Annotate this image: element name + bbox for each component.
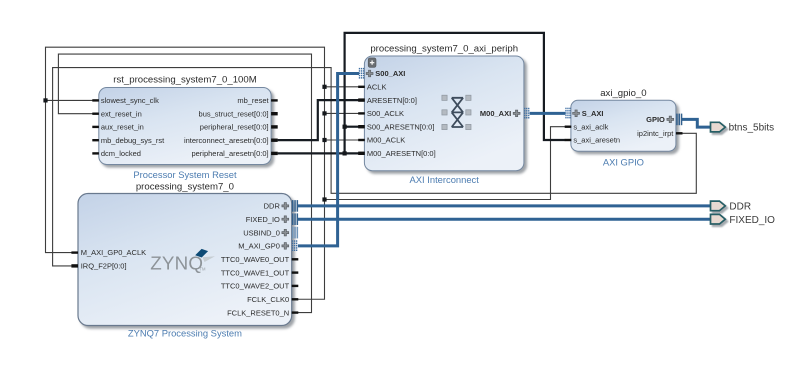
svg-text:axi_gpio_0: axi_gpio_0 bbox=[600, 88, 646, 99]
clock junction at s_axi_aclk branch bbox=[322, 197, 326, 201]
svg-text:IRQ_F2P[0:0]: IRQ_F2P[0:0] bbox=[81, 262, 127, 271]
wire clock branch to slowest_sync_clk bbox=[46, 99, 93, 101]
svg-text:AXI GPIO: AXI GPIO bbox=[603, 157, 644, 168]
svg-text:M_AXI_GP0_ACLK: M_AXI_GP0_ACLK bbox=[81, 248, 146, 257]
svg-text:S_AXI: S_AXI bbox=[582, 109, 604, 118]
svg-text:ARESETN[0:0]: ARESETN[0:0] bbox=[367, 96, 417, 105]
wire bus DDR to DDR port bbox=[298, 204, 711, 207]
svg-text:btns_5bits: btns_5bits bbox=[729, 123, 775, 134]
svg-text:M00_AXI: M00_AXI bbox=[480, 109, 511, 118]
wire clock branch to M00_ACLK bbox=[325, 139, 359, 141]
svg-text:s_axi_aclk: s_axi_aclk bbox=[573, 122, 608, 131]
wire bus FIXED_IO to FIXED_IO port bbox=[298, 218, 711, 221]
svg-text:DDR: DDR bbox=[729, 201, 751, 212]
port btns_5bits bbox=[711, 122, 726, 132]
svg-text:s_axi_aresetn: s_axi_aresetn bbox=[573, 136, 620, 145]
svg-text:ext_reset_in: ext_reset_in bbox=[101, 109, 142, 118]
svg-text:TM: TM bbox=[200, 267, 207, 272]
wire net FCLK_RESET0_N to ext_reset_in bbox=[58, 54, 311, 313]
svg-text:peripheral_aresetn[0:0]: peripheral_aresetn[0:0] bbox=[191, 149, 268, 158]
svg-text:dcm_locked: dcm_locked bbox=[101, 149, 141, 158]
svg-text:GPIO: GPIO bbox=[646, 115, 665, 124]
svg-text:bus_struct_reset[0:0]: bus_struct_reset[0:0] bbox=[199, 109, 269, 118]
svg-text:processing_system7_0_axi_perip: processing_system7_0_axi_periph bbox=[370, 44, 518, 55]
svg-text:ACLK: ACLK bbox=[367, 83, 387, 92]
clock junction at ACLK bbox=[322, 85, 326, 89]
svg-text:M_AXI_GP0: M_AXI_GP0 bbox=[238, 242, 280, 251]
svg-text:ZYNQ: ZYNQ bbox=[150, 252, 203, 273]
svg-text:ZYNQ7 Processing System: ZYNQ7 Processing System bbox=[128, 328, 242, 339]
svg-text:TTC0_WAVE2_OUT: TTC0_WAVE2_OUT bbox=[221, 282, 290, 291]
svg-text:FIXED_IO: FIXED_IO bbox=[246, 215, 280, 224]
port DDR bbox=[711, 201, 726, 211]
wire net peripheral_aresetn[0:0] main run to M00_ARESETN bbox=[278, 152, 359, 154]
clock junction at slowest_sync_clk bbox=[43, 98, 47, 102]
svg-text:slowest_sync_clk: slowest_sync_clk bbox=[101, 96, 159, 105]
wire peripheral_aresetn branch over top to s_axi_aresetn bbox=[345, 33, 566, 153]
wire clock branch to ACLK bbox=[325, 86, 359, 88]
peripheral_aresetn junction at S00_ARESETN bbox=[343, 125, 347, 129]
svg-text:processing_system7_0: processing_system7_0 bbox=[136, 182, 234, 193]
svg-text:DDR: DDR bbox=[264, 202, 281, 211]
clock junction at S00_ACLK bbox=[322, 111, 326, 115]
svg-text:M00_ARESETN[0:0]: M00_ARESETN[0:0] bbox=[367, 149, 436, 158]
svg-text:Processor System Reset: Processor System Reset bbox=[133, 169, 237, 180]
svg-text:USBIND_0: USBIND_0 bbox=[243, 228, 280, 237]
svg-text:S00_ARESETN[0:0]: S00_ARESETN[0:0] bbox=[367, 122, 435, 131]
wire peripheral_aresetn branch to S00_ARESETN bbox=[345, 126, 359, 128]
block axi_gpio_0 (AXI GPIO U3) bbox=[565, 88, 683, 168]
svg-text:M00_ACLK: M00_ACLK bbox=[367, 136, 405, 145]
svg-text:AXI Interconnect: AXI Interconnect bbox=[410, 174, 480, 185]
svg-text:rst_processing_system7_0_100M: rst_processing_system7_0_100M bbox=[113, 74, 256, 85]
wire bus GPIO to btns_5bits port bbox=[682, 119, 711, 127]
wire net interconnect_aresetn[0:0] bbox=[278, 100, 359, 140]
wire net ip2intc_irpt to IRQ_F2P bbox=[53, 68, 697, 266]
svg-text:FCLK_CLK0: FCLK_CLK0 bbox=[247, 295, 289, 304]
svg-text:FCLK_RESET0_N: FCLK_RESET0_N bbox=[227, 308, 289, 317]
clock junction at M00_ACLK bbox=[322, 138, 326, 142]
port FIXED_IO bbox=[711, 214, 726, 224]
svg-text:aux_reset_in: aux_reset_in bbox=[101, 123, 144, 132]
svg-text:interconnect_aresetn[0:0]: interconnect_aresetn[0:0] bbox=[184, 136, 269, 145]
wire clock branch to s_axi_aclk bbox=[325, 127, 566, 200]
svg-text:peripheral_reset[0:0]: peripheral_reset[0:0] bbox=[200, 123, 269, 132]
wire clock branch to S00_ACLK bbox=[325, 112, 359, 114]
wire bus M_AXI_GP0 to S00_AXI bbox=[298, 74, 359, 246]
wire net FCLK_CLK0 (clock) trunk bbox=[46, 47, 325, 299]
svg-text:TTC0_WAVE0_OUT: TTC0_WAVE0_OUT bbox=[221, 255, 290, 264]
svg-text:ip2intc_irpt: ip2intc_irpt bbox=[637, 129, 674, 138]
svg-text:S00_AXI: S00_AXI bbox=[375, 69, 405, 78]
svg-text:FIXED_IO: FIXED_IO bbox=[729, 215, 775, 226]
svg-text:TTC0_WAVE1_OUT: TTC0_WAVE1_OUT bbox=[221, 268, 290, 277]
svg-text:mb_reset: mb_reset bbox=[237, 96, 269, 105]
svg-text:S00_ACLK: S00_ACLK bbox=[367, 109, 404, 118]
block processing_system7_0_axi_periph (AXI Interconnect U2) bbox=[358, 44, 529, 185]
peripheral_aresetn junction at M00_ARESETN run bbox=[343, 151, 347, 155]
svg-text:mb_debug_sys_rst: mb_debug_sys_rst bbox=[101, 136, 165, 145]
wire bus M00_AXI to S_AXI bbox=[530, 112, 566, 115]
block processing_system7_0 (ZYNQ7 Processing System U4) bbox=[71, 182, 298, 339]
block rst_processing_system7_0_100M (Processor System Reset U1) bbox=[92, 74, 277, 180]
